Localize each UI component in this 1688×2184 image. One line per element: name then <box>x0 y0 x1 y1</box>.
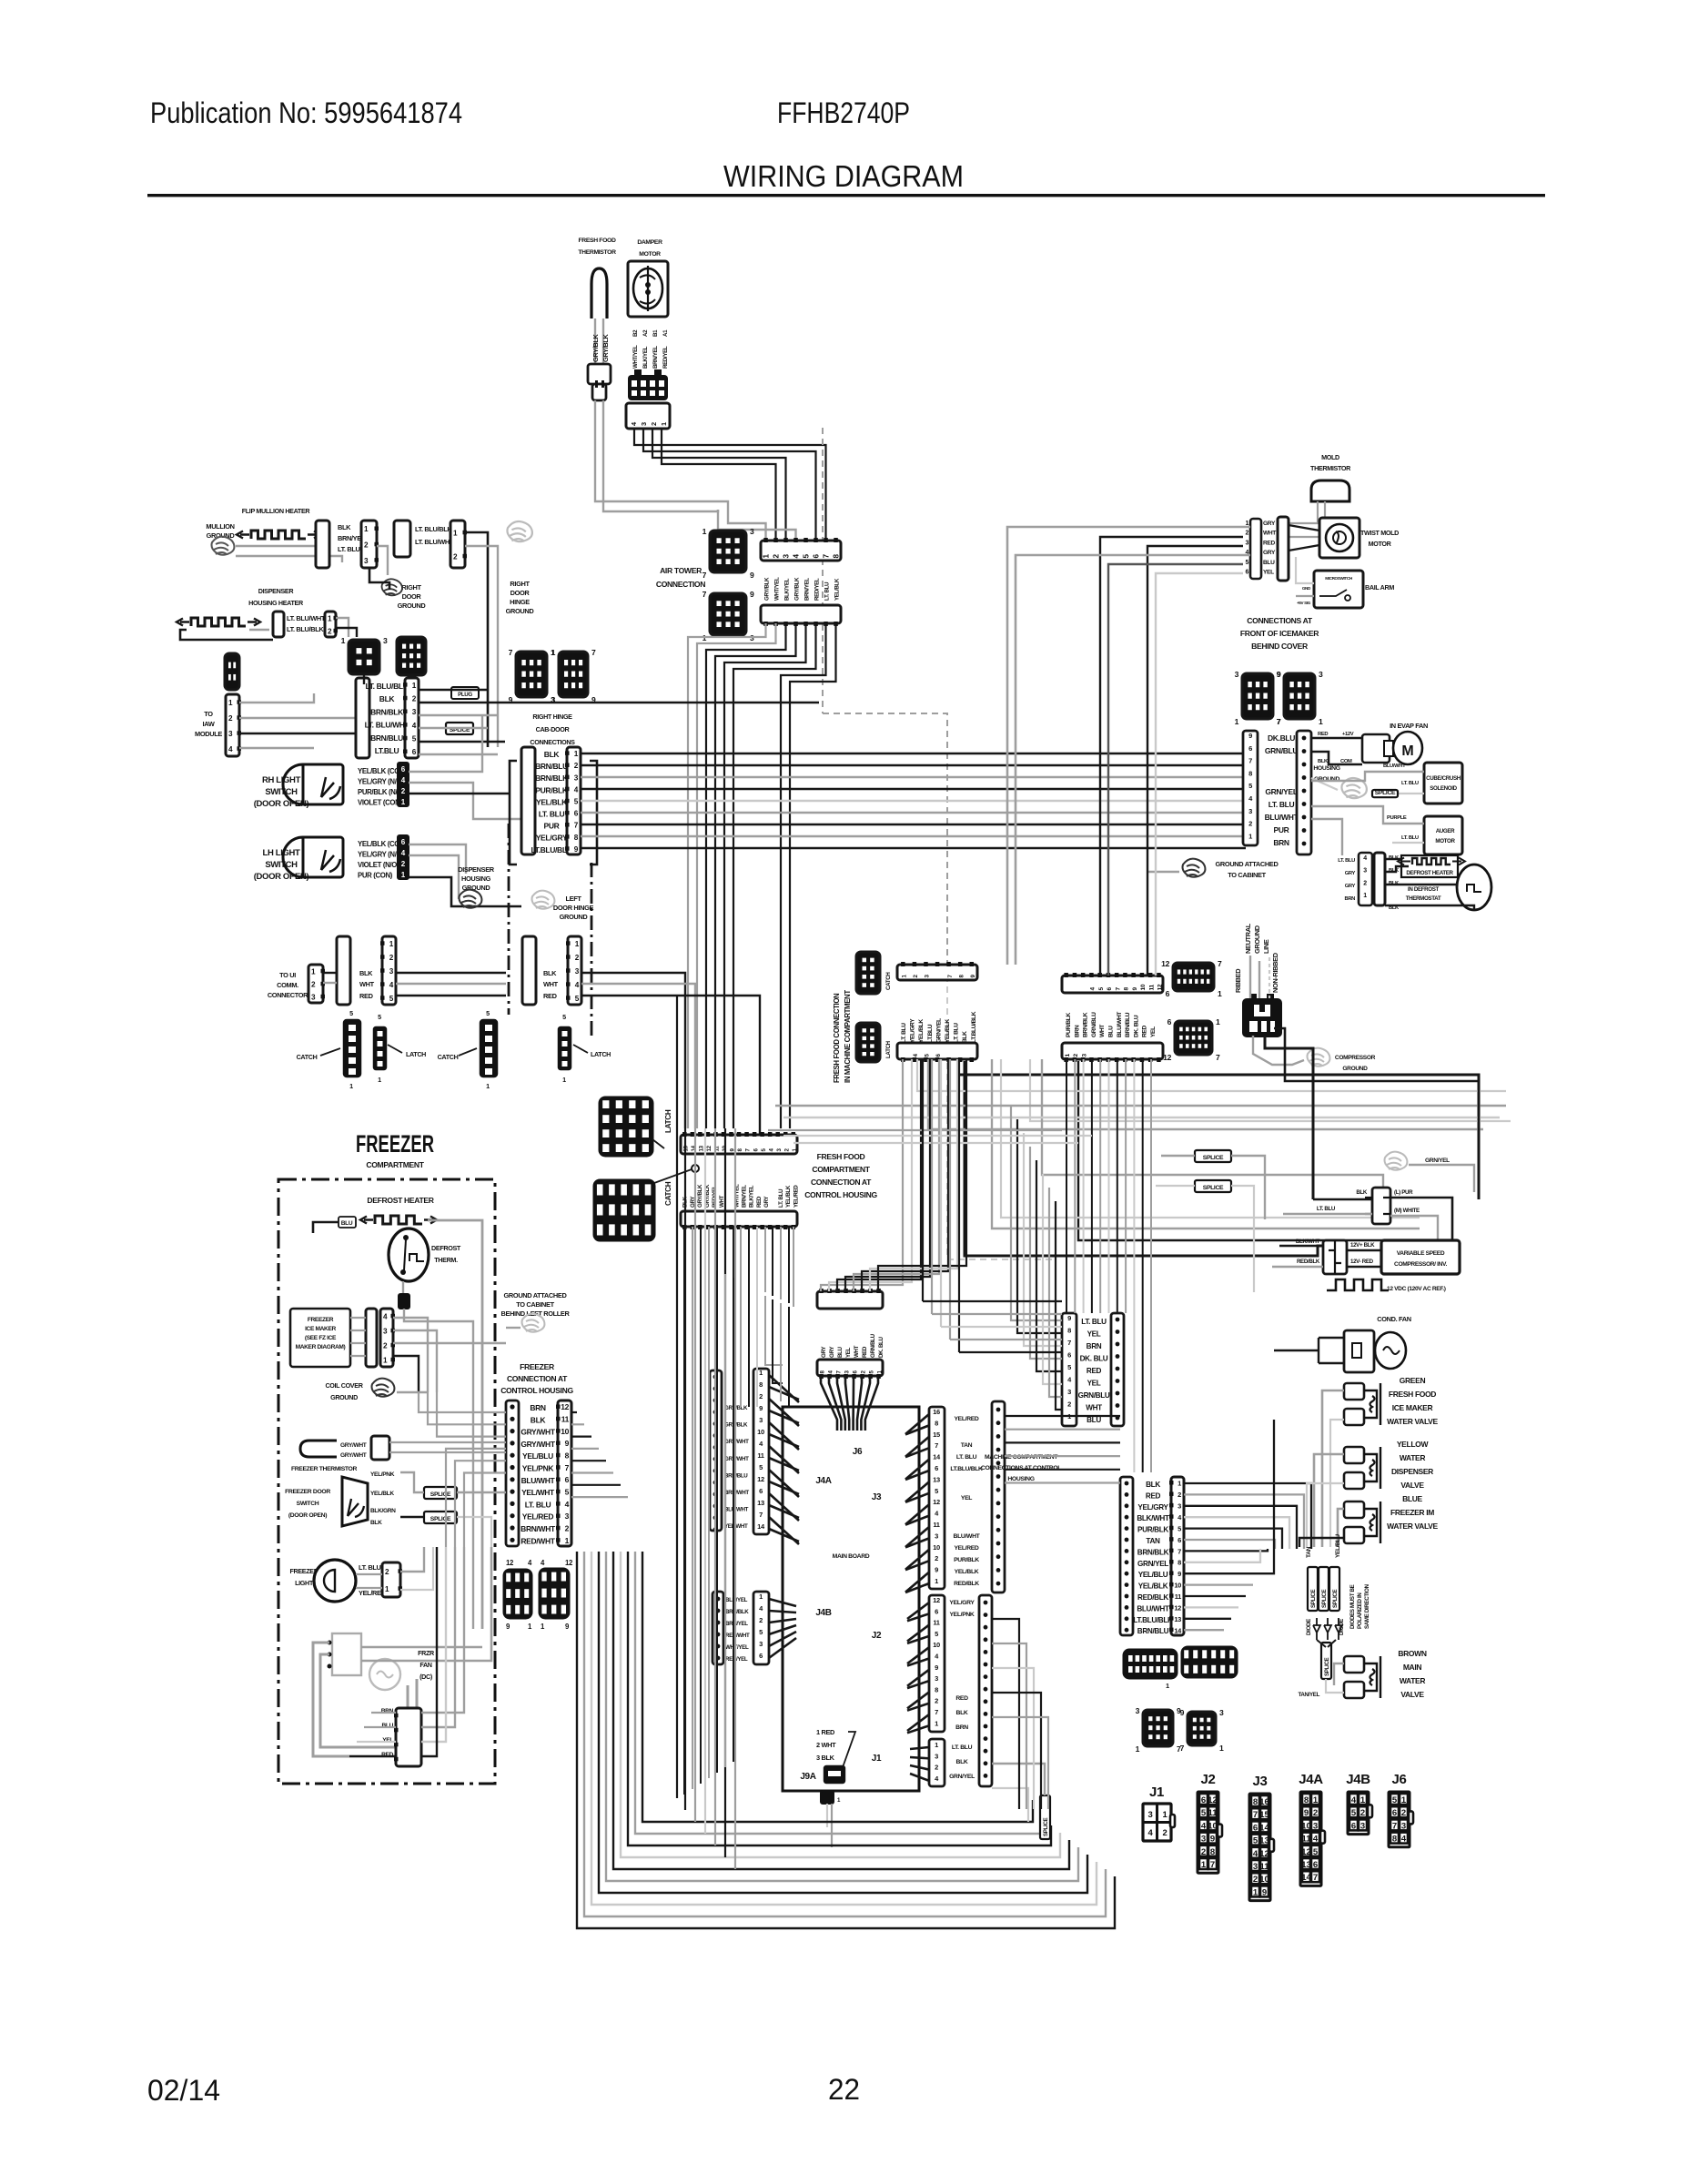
svg-text:BLK: BLK <box>1318 759 1329 764</box>
svg-text:3: 3 <box>1401 1821 1406 1831</box>
svg-text:BLK: BLK <box>544 750 561 759</box>
wire j4b fan 1 <box>769 1611 796 1613</box>
wire dash-dot boundary B <box>591 863 593 1037</box>
wire air tower down 2 <box>706 623 786 1128</box>
svg-text:7: 7 <box>702 571 707 580</box>
svg-text:GRY: GRY <box>763 1196 770 1208</box>
dispenser housing ground clamp <box>460 890 482 908</box>
wire diode join 2 <box>1328 1640 1336 1647</box>
svg-text:7: 7 <box>1216 1053 1220 1062</box>
svg-text:13: 13 <box>757 1499 764 1507</box>
svg-text:GROUND: GROUND <box>560 913 589 921</box>
wire bundle vert c <box>940 1059 942 1327</box>
svg-text:LATCH: LATCH <box>591 1050 611 1058</box>
wire fan wire right <box>361 1646 482 1649</box>
svg-text:3: 3 <box>759 1416 763 1424</box>
svg-text:15: 15 <box>1259 1810 1269 1820</box>
svg-text:MULLION: MULLION <box>206 522 234 531</box>
svg-text:3: 3 <box>935 1532 938 1540</box>
wire housing ground lead <box>1311 778 1338 790</box>
inverter connector <box>1323 1240 1347 1274</box>
pair1 latch connector <box>374 1027 386 1069</box>
svg-text:BLK: BLK <box>956 1759 968 1765</box>
wire dispenser wire down 2 <box>336 628 357 637</box>
svg-text:1: 1 <box>1313 1795 1319 1805</box>
wire j2 out 3 <box>992 1693 1041 1809</box>
svg-text:1: 1 <box>1218 989 1222 998</box>
wire machine comp run 1 <box>1184 1494 1304 1549</box>
connector icemaker front connector B <box>1278 517 1289 581</box>
splice fz 1 <box>424 1487 457 1499</box>
svg-text:12: 12 <box>706 1145 713 1151</box>
water valve brown main water <box>1344 1656 1364 1673</box>
svg-text:MOTOR: MOTOR <box>639 251 661 258</box>
svg-text:10: 10 <box>1301 1821 1311 1831</box>
svg-text:1: 1 <box>562 1076 566 1084</box>
svg-text:GRY: GRY <box>1345 871 1356 876</box>
svg-text:RED: RED <box>1146 1491 1161 1500</box>
svg-text:GROUND: GROUND <box>330 1393 358 1401</box>
wire ui run r3 <box>581 996 760 1135</box>
wire j2 fan 10 <box>907 1714 929 1731</box>
svg-text:5: 5 <box>935 1487 938 1495</box>
defrost heater right frame <box>1401 855 1458 877</box>
connector table J1 <box>1143 1804 1171 1841</box>
svg-text:6: 6 <box>1245 570 1248 576</box>
wire inv wire 1 <box>1279 1245 1323 1248</box>
svg-text:6: 6 <box>1201 1795 1206 1805</box>
wire mid gray long 1 <box>775 1105 1506 1107</box>
wire air tower down 3 <box>715 623 796 1128</box>
catch pointer circle <box>654 1169 692 1183</box>
svg-text:12: 12 <box>933 1498 940 1506</box>
wire iaw wire 1 <box>239 693 314 703</box>
svg-text:5: 5 <box>378 1013 381 1021</box>
svg-text:8: 8 <box>1248 769 1252 777</box>
svg-text:YEL: YEL <box>1087 1330 1101 1339</box>
svg-text:YEL/BLK: YEL/BLK <box>370 1491 394 1497</box>
svg-text:11: 11 <box>1259 1862 1269 1872</box>
svg-text:GRN/YEL: GRN/YEL <box>949 1774 975 1780</box>
connector J3 pin column <box>929 1407 945 1589</box>
wire j2 out 0 <box>992 1619 1019 1809</box>
damper motor box <box>628 261 668 317</box>
svg-text:VARIABLE SPEED: VARIABLE SPEED <box>1397 1250 1445 1257</box>
wire fzcol out 2 <box>571 1435 591 1437</box>
svg-text:3: 3 <box>935 1752 938 1760</box>
svg-text:DK.BLU: DK.BLU <box>1268 733 1295 743</box>
svg-text:GRN/YEL: GRN/YEL <box>935 1018 942 1043</box>
wire fzcol out 1 <box>571 1423 584 1425</box>
diode symbols <box>1313 1618 1342 1640</box>
svg-text:8: 8 <box>565 1451 570 1461</box>
wire bottom loop 4 <box>606 1552 1078 1881</box>
splice right 1 <box>1195 1150 1231 1162</box>
connector door connector A <box>394 521 410 557</box>
wire j2 out 1 <box>992 1643 1026 1809</box>
wire ice maker out 2 <box>393 1330 437 1392</box>
connector frzr fan connector B <box>396 1708 421 1766</box>
wire splice j2 link <box>992 1764 1045 1795</box>
connector machine comp right col <box>1171 1477 1184 1635</box>
svg-text:6: 6 <box>759 1652 763 1660</box>
wire fz light out 1 <box>400 1547 424 1572</box>
svg-text:GRN/YEL: GRN/YEL <box>1137 1560 1168 1568</box>
wire damper wire 2 <box>643 429 816 541</box>
wire thermistor to air tower 1 <box>728 510 766 541</box>
svg-text:BRN/YEL: BRN/YEL <box>725 1621 748 1627</box>
svg-text:CATCH: CATCH <box>664 1181 672 1206</box>
freezer door switch symbol <box>342 1477 368 1526</box>
svg-text:BLK: BLK <box>359 969 373 977</box>
svg-text:RED/BLK: RED/BLK <box>1137 1593 1168 1602</box>
wire bottom loop 7 <box>628 1552 1051 1845</box>
wire j2 fan 11 <box>907 1725 929 1733</box>
svg-text:RED/BLK: RED/BLK <box>954 1581 979 1587</box>
wire machine comp run 5 <box>1184 1540 1275 1549</box>
svg-text:BLU/WHT: BLU/WHT <box>1383 763 1406 769</box>
svg-text:1: 1 <box>349 1082 353 1090</box>
svg-text:LT. BLU: LT. BLU <box>1269 800 1295 809</box>
wire j6 fan 4 <box>852 1376 854 1431</box>
wire thermistor lead 1 <box>594 318 596 364</box>
svg-text:02/14: 02/14 <box>147 2074 220 2107</box>
wire hinge run 0 <box>581 753 1246 754</box>
svg-text:3: 3 <box>1245 540 1248 546</box>
wire j4b fan 4 <box>769 1632 796 1646</box>
svg-text:PUR/BLK: PUR/BLK <box>1066 1013 1072 1037</box>
wire inv wire 4 <box>1347 1266 1381 1268</box>
pair2 catch connector <box>480 1020 497 1077</box>
wire j4a fan 3 <box>769 1410 799 1423</box>
connector air tower bottom bar <box>761 605 841 623</box>
wire latch pointer <box>652 1139 664 1148</box>
svg-text:DEFROST HEATER: DEFROST HEATER <box>367 1196 434 1205</box>
wire fan b out 3 <box>421 1547 446 1742</box>
svg-text:GRY/BLK: GRY/BLK <box>591 333 600 362</box>
svg-text:COMPRESSOR/ INV.: COMPRESSOR/ INV. <box>1394 1261 1447 1268</box>
wire mc drop 9 <box>1142 1059 1144 1132</box>
wire j9a drop <box>826 1804 828 1827</box>
connector connector 12pin <box>397 637 426 675</box>
switch LH light switch <box>301 837 343 877</box>
svg-text:BLU/WHT: BLU/WHT <box>1137 1604 1169 1613</box>
svg-text:CUBE/CRUSH: CUBE/CRUSH <box>1426 775 1461 782</box>
svg-text:LIGHT: LIGHT <box>295 1579 314 1587</box>
svg-text:THERMISTOR: THERMISTOR <box>578 249 616 256</box>
connector J2 outer column <box>979 1595 992 1786</box>
svg-text:1: 1 <box>1319 717 1323 726</box>
housing ground scribble <box>1341 778 1366 798</box>
cond fan connector <box>1344 1330 1374 1372</box>
svg-text:LT. BLU/BLK: LT. BLU/BLK <box>366 682 409 691</box>
wire icemaker long wire 1 <box>1311 819 1342 855</box>
damper pin bar <box>626 403 670 429</box>
wire fz splice out 2 <box>457 1517 491 1547</box>
svg-text:CONNECTOR: CONNECTOR <box>268 991 308 999</box>
damper motor plug <box>628 375 668 400</box>
wire evap blk wire <box>1311 752 1362 764</box>
wire defrost wire 3 <box>1385 885 1457 887</box>
svg-text:SPLICE: SPLICE <box>1203 1185 1224 1191</box>
svg-text:GRY/WHT: GRY/WHT <box>724 1439 749 1445</box>
wire j6 fan 6 <box>861 1376 870 1431</box>
svg-text:BLU: BLU <box>1087 1416 1101 1424</box>
svg-text:GRY: GRY <box>829 1346 835 1358</box>
wire hinge run 5 <box>581 812 1246 814</box>
wire diode join <box>1317 1640 1326 1647</box>
svg-text:VIOLET (N/O): VIOLET (N/O) <box>358 861 399 869</box>
wire machine comp run 2 <box>1184 1506 1297 1549</box>
wire j4b fan 3 <box>769 1625 796 1634</box>
svg-text:SOLENOID: SOLENOID <box>1430 785 1457 792</box>
svg-text:16: 16 <box>1259 1797 1269 1807</box>
freezer thermistor bulb <box>300 1441 337 1457</box>
wire solenoid wire 1 <box>1311 772 1424 781</box>
svg-text:12: 12 <box>757 1475 764 1483</box>
connector mc 9pin A <box>1143 1710 1173 1746</box>
wire ff drop 7 <box>740 1227 742 1281</box>
svg-text:2 WHT: 2 WHT <box>816 1741 836 1749</box>
connector defrost connector B <box>1374 853 1385 905</box>
wire mold therm lead 2 <box>1287 501 1325 537</box>
svg-text:8: 8 <box>759 1380 763 1389</box>
svg-text:3: 3 <box>1136 1706 1140 1715</box>
wire main black run upper <box>958 1061 1479 1199</box>
wire mc drop 3 <box>1091 1059 1093 1099</box>
svg-text:CONNECTION: CONNECTION <box>656 580 705 589</box>
svg-text:9: 9 <box>1248 732 1252 740</box>
svg-text:CONNECTIONS AT: CONNECTIONS AT <box>1247 616 1313 625</box>
wire cap wire blk <box>1313 1198 1372 1201</box>
svg-text:3: 3 <box>1178 1502 1181 1511</box>
wire j3 out 5 <box>1005 1481 1120 1483</box>
wire machine comp run 8 <box>1184 1420 1274 1573</box>
wire lh switch wire 1 <box>409 844 466 874</box>
wire iaw bundle right 3 <box>326 733 356 735</box>
connector ff catch grid <box>594 1180 654 1240</box>
svg-text:12: 12 <box>933 1596 940 1604</box>
connector J1 pin column <box>929 1739 945 1786</box>
svg-text:BRN/BLU: BRN/BLU <box>724 1472 748 1479</box>
wire ff drop cont 3 <box>708 1267 710 1778</box>
mullion ground clamp <box>212 537 235 555</box>
svg-text:5: 5 <box>486 1009 490 1017</box>
wire inv wire 3 <box>1347 1249 1381 1251</box>
svg-text:BLK: BLK <box>1356 1189 1368 1196</box>
wire ff drop cont 6 <box>733 1278 734 1762</box>
wire ff drop 14 <box>793 1227 794 1307</box>
svg-text:1: 1 <box>1363 893 1367 899</box>
svg-text:6: 6 <box>1067 1351 1071 1360</box>
wire j3 out 4 <box>1005 1469 1120 1471</box>
wire mc drop cont 3 <box>1091 1099 1093 1313</box>
svg-text:3: 3 <box>935 1674 938 1683</box>
svg-text:HOUSING HEATER: HOUSING HEATER <box>248 599 304 607</box>
svg-text:11: 11 <box>1175 1592 1181 1601</box>
svg-text:MOLD: MOLD <box>1321 453 1339 461</box>
svg-text:LT. BLU: LT. BLU <box>952 1744 973 1751</box>
svg-text:FRESH FOOD: FRESH FOOD <box>817 1152 865 1161</box>
svg-text:BRN: BRN <box>1074 1025 1080 1037</box>
wire defrost heater right wire <box>428 1220 482 1629</box>
svg-text:LINE: LINE <box>1262 939 1270 954</box>
svg-text:J6: J6 <box>1392 1772 1407 1787</box>
wire cond fan feed <box>1274 1350 1319 1351</box>
svg-text:HINGE: HINGE <box>510 598 530 606</box>
svg-text:4: 4 <box>1201 1821 1207 1831</box>
wire machine comp run 12 <box>1184 1618 1231 1620</box>
connector fz catch grid <box>540 1569 569 1618</box>
svg-text:TWIST MOLD: TWIST MOLD <box>1360 529 1399 537</box>
svg-text:2: 2 <box>935 1764 938 1772</box>
wire dashed boundary vertical <box>822 428 824 713</box>
connector ff machine catch <box>856 952 880 994</box>
wire defrost therm lead <box>402 1281 404 1294</box>
wire ui run r1 <box>581 973 685 1128</box>
svg-text:4: 4 <box>1253 1849 1258 1859</box>
svg-text:J1: J1 <box>1149 1785 1164 1800</box>
svg-text:5: 5 <box>759 1628 763 1636</box>
svg-text:5: 5 <box>349 1009 353 1017</box>
svg-text:PUR: PUR <box>1274 825 1289 834</box>
wire top right gray run 1 <box>1007 527 1250 965</box>
svg-text:CAB-DOOR: CAB-DOOR <box>536 725 571 733</box>
svg-text:YEL/BLU: YEL/BLU <box>1138 1571 1168 1579</box>
wire grn yel wire <box>1409 1165 1474 1192</box>
svg-text:15: 15 <box>933 1431 940 1439</box>
svg-text:YEL/BLK: YEL/BLK <box>918 1019 925 1043</box>
svg-text:BRN: BRN <box>1087 1342 1102 1350</box>
evap fan connector <box>1362 734 1390 763</box>
splice evap <box>1372 790 1398 797</box>
wire bundle vert b <box>931 1059 933 1314</box>
wire j2 fan 0 <box>907 1603 929 1619</box>
svg-text:GREEN: GREEN <box>1400 1376 1426 1385</box>
wire splice right 1 in <box>1161 1155 1195 1157</box>
wire j4b fan 2 <box>769 1619 796 1623</box>
wire black run right vertical <box>1078 1061 1420 1240</box>
wire mc drop cont 4 <box>1099 1105 1101 1313</box>
connector ff machine bar top <box>897 965 977 980</box>
svg-text:BRN: BRN <box>1273 838 1289 847</box>
svg-text:1: 1 <box>1401 1795 1407 1805</box>
wire ff drop right 2 <box>773 1299 783 1383</box>
wire ice maker wire 4 <box>350 1355 366 1357</box>
wire machine comp run 6 <box>1184 1549 1268 1551</box>
svg-text:14: 14 <box>1301 1873 1311 1883</box>
wire iaw wire 2 <box>239 717 326 719</box>
svg-text:BRN/YEL: BRN/YEL <box>742 1185 748 1208</box>
svg-text:9: 9 <box>1304 1808 1309 1818</box>
svg-text:10: 10 <box>1140 984 1147 990</box>
wire hinge run 7 <box>581 835 1246 837</box>
wire fz splice out 1 <box>457 1491 506 1493</box>
svg-text:(DOOR OPEN): (DOOR OPEN) <box>288 1512 327 1519</box>
svg-text:7: 7 <box>1313 1873 1318 1883</box>
svg-text:RIGHT: RIGHT <box>401 583 421 591</box>
wire j3 fan 1 <box>905 1425 929 1434</box>
svg-text:12: 12 <box>565 1559 573 1567</box>
svg-text:4: 4 <box>1313 1835 1319 1845</box>
svg-text:13: 13 <box>699 1145 705 1151</box>
wire machine comp run 11 <box>1184 1606 1238 1608</box>
svg-text:PUR/BLK: PUR/BLK <box>954 1557 979 1563</box>
wire bundle gray e <box>768 1129 1062 1131</box>
svg-text:12V- RED: 12V- RED <box>1350 1259 1374 1265</box>
svg-text:LT. BLU: LT. BLU <box>956 1454 977 1461</box>
svg-text:11: 11 <box>1148 985 1155 991</box>
wire j2 out 4 <box>992 1717 1048 1809</box>
splice diode 0 <box>1308 1567 1318 1611</box>
wire bundle vert e <box>958 1059 960 1352</box>
svg-text:5: 5 <box>1351 1808 1357 1818</box>
wire thermistor wire down 1 <box>595 400 728 510</box>
svg-text:3: 3 <box>1067 1388 1071 1396</box>
wire damper wire 1 <box>634 429 826 541</box>
svg-text:BRN/BLU: BRN/BLU <box>1137 1627 1169 1635</box>
wire ice maker wire 1 <box>350 1317 366 1319</box>
water valve green fresh food ice maker <box>1344 1383 1364 1400</box>
splice bottom <box>1321 1643 1331 1679</box>
svg-text:Publication No: 5995641874: Publication No: 5995641874 <box>150 96 462 129</box>
svg-text:YEL/GRY: YEL/GRY <box>536 834 568 843</box>
wire mullion wire 2 <box>236 556 342 562</box>
svg-text:J4B: J4B <box>815 1608 831 1618</box>
wire j4a fan 11 <box>769 1505 799 1518</box>
in defrost thermostat circle <box>1457 864 1491 910</box>
wire bail arm lead 2 <box>1296 595 1314 597</box>
svg-text:SPLICE: SPLICE <box>1324 1658 1330 1676</box>
wire ff drop board 1 <box>748 1285 750 1407</box>
svg-text:YEL/GRY: YEL/GRY <box>1137 1503 1168 1512</box>
svg-text:1: 1 <box>1248 832 1252 840</box>
svg-text:4: 4 <box>401 776 406 784</box>
svg-text:LT. BLU/WHT: LT. BLU/WHT <box>415 538 454 546</box>
wire solenoid wire 2 <box>1374 793 1424 794</box>
svg-text:WATER VALVE: WATER VALVE <box>1387 1522 1438 1531</box>
svg-text:DISPENSER: DISPENSER <box>1391 1467 1433 1476</box>
wire fz switch wire 2 <box>400 1516 424 1518</box>
svg-text:3: 3 <box>1360 1821 1365 1831</box>
connector j6 bar top <box>817 1291 883 1309</box>
wire splice right 2 in <box>1156 1185 1195 1187</box>
svg-text:ICE MAKER: ICE MAKER <box>1392 1403 1433 1412</box>
svg-text:2: 2 <box>1360 1808 1365 1818</box>
connector air tower top bar <box>761 541 841 561</box>
connector freezer connection right col <box>558 1400 571 1546</box>
svg-text:2: 2 <box>1248 820 1252 828</box>
splice capsule left <box>446 723 473 734</box>
wire j3 fan 10 <box>905 1527 929 1547</box>
svg-text:BLK/YEL: BLK/YEL <box>749 1185 755 1208</box>
svg-text:BEHIND COVER: BEHIND COVER <box>1251 642 1309 651</box>
wire bundle join e <box>959 1351 1062 1353</box>
svg-text:3: 3 <box>1363 868 1367 875</box>
wire thermistor to air tower 2 <box>718 510 796 541</box>
connector table J2 <box>1198 1792 1218 1873</box>
svg-text:TAN: TAN <box>961 1442 973 1449</box>
connector mc grid connector B <box>1182 1647 1237 1677</box>
wire hinge run 4 <box>581 800 1246 802</box>
svg-text:6: 6 <box>1167 1017 1172 1026</box>
cabinet ground scribble <box>522 1314 545 1332</box>
svg-text:LT. BLU: LT. BLU <box>338 545 360 553</box>
board bottom pin <box>821 1791 834 1804</box>
svg-text:4: 4 <box>1351 1795 1357 1805</box>
wire bundle vert a <box>922 1059 924 1301</box>
svg-text:1: 1 <box>1360 1795 1366 1805</box>
